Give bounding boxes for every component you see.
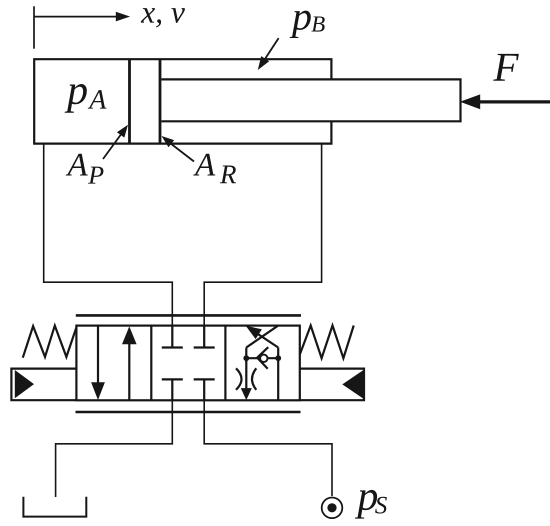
cell3 diagonal top-right to left branch: [246, 326, 277, 348]
proportional bottom rail: [76, 411, 301, 414]
cell2 closed port T bottom left: [162, 379, 183, 400]
pipe A from cap side to valve port A: [44, 144, 173, 326]
cell3 down arrow with head: [241, 358, 252, 400]
cell3 junction dot right: [275, 355, 281, 361]
solenoid box left: [11, 369, 76, 401]
arrow AR to rod annulus: [162, 136, 195, 162]
label F: [493, 54, 519, 81]
label AP: [66, 154, 104, 184]
spring left: [23, 326, 77, 358]
label x,v: [141, 8, 185, 27]
cell3 junction dot left: [243, 355, 249, 361]
cell2 closed port T bottom right: [194, 379, 215, 400]
cell2 closed port T top left: [162, 326, 183, 348]
label AR: [193, 154, 236, 183]
label pB: [290, 11, 325, 38]
piston: [130, 59, 161, 143]
solenoid box right: [300, 369, 364, 401]
cell3 bridge between branches: [246, 357, 278, 359]
pressure source dot: [327, 503, 336, 512]
cell3 left branch vertical: [245, 348, 247, 363]
pipe B from rod side to valve port B: [204, 144, 321, 326]
solenoid triangle right: [342, 370, 363, 399]
cell3 crossover arrow up-left: [246, 326, 279, 348]
solenoid triangle left: [15, 370, 34, 398]
label pA: [65, 84, 107, 113]
cylinder body: [34, 59, 331, 143]
cell3 right branch vertical: [277, 348, 279, 401]
spring right: [300, 326, 354, 359]
coordinate axis x,v: [34, 6, 130, 48]
piston rod: [162, 79, 461, 121]
pressure source circle: [322, 498, 343, 519]
cell1 up arrow: [122, 326, 137, 400]
arrow to pB chamber: [258, 38, 279, 70]
force arrow F: [460, 94, 550, 109]
cell1 down arrow: [91, 326, 105, 400]
pipe T from valve to tank: [56, 400, 173, 497]
label pS: [355, 490, 387, 519]
tank symbol: [23, 497, 86, 517]
cell3 check valve ball: [260, 355, 267, 362]
cell3 throttle arc left: [236, 368, 242, 390]
proportional top rail: [76, 314, 301, 317]
cell2 closed port T top right: [194, 326, 215, 348]
valve body 3 positions: [76, 326, 299, 401]
cell3 check valve seat: [257, 347, 268, 369]
pipe P from valve to supply: [204, 400, 332, 496]
arrow AP to piston: [103, 125, 128, 159]
cell3 throttle arc right: [252, 368, 256, 390]
